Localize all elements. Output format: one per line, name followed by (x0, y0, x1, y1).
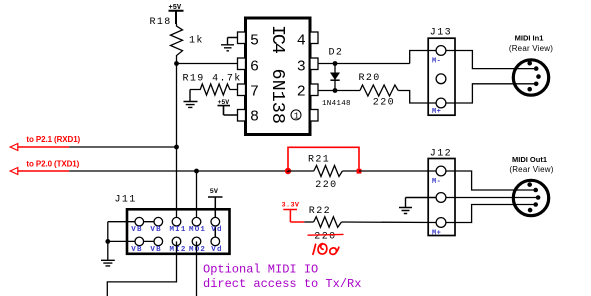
wire: J12 top pin to MIDI Out DIN (446, 171, 536, 190)
node: RXD1 junction (174, 145, 179, 150)
svg-text:R18: R18 (150, 17, 172, 28)
wire: IC pin2 to R20 (318, 90, 360, 92)
power 3.3V (red, R22 feed) (282, 201, 305, 222)
svg-text:to P2.1 (RXD1): to P2.1 (RXD1) (26, 135, 80, 144)
wire: R20 to J13 M+ (398, 91, 436, 104)
node: VB rail junction (105, 239, 110, 244)
wire: to J12 M- (359, 170, 436, 172)
svg-text:5: 5 (250, 32, 259, 49)
svg-text:MIDI Out1: MIDI Out1 (512, 155, 547, 164)
wire: J13 bottom pin to MIDI In DIN pin (446, 84, 536, 103)
svg-text:Vd: Vd (211, 246, 222, 254)
wire: R22 to J12 M+ (342, 221, 437, 224)
svg-text:VB: VB (150, 226, 161, 234)
pin labels J11 bottom row: VB VB MI2 MO2 Vd (131, 246, 222, 254)
MIDI In1 DIN connector (rear view) (513, 60, 548, 95)
wire: junction to IC pin 6 (177, 63, 238, 65)
wire: MO1 vertical (TXD1 down to J11 pin MO1) (196, 171, 198, 222)
svg-text:R20: R20 (359, 73, 381, 84)
power +5V symbol (IC pin 8) (218, 99, 238, 115)
pin labels J11 top row: VB VB MI1 MO1 Vd (131, 226, 222, 234)
ground (J12 middle pin) (399, 198, 436, 214)
svg-text:6N138: 6N138 (267, 69, 288, 125)
svg-text:MI1: MI1 (169, 226, 186, 234)
IC4 pin 2 stub (310, 84, 318, 96)
svg-text:4: 4 (297, 32, 306, 49)
wire: to R22 (304, 221, 313, 223)
arrow: to P2.1 (10, 144, 18, 151)
svg-text:(Rear View): (Rear View) (509, 165, 553, 174)
svg-text:J11: J11 (115, 195, 137, 206)
svg-text:Vd: Vd (211, 226, 222, 234)
wire: TXD1 red segment from arrow (17, 170, 69, 172)
wire: R21 to red marker (342, 170, 359, 172)
wire: TXD1 to R21 (288, 170, 314, 172)
wire: RXD1 black segment (69, 146, 176, 148)
diode D2 (330, 64, 340, 91)
svg-text:220: 220 (373, 97, 395, 108)
wire: MI2 exit (down, left, down off page) (107, 241, 176, 296)
connector J11 header 2x5 (127, 209, 230, 254)
wire: IC pin3 to J13 M- (318, 63, 410, 65)
svg-text:to P2.0 (TXD1): to P2.0 (TXD1) (26, 159, 79, 168)
svg-text:M+: M+ (432, 108, 441, 116)
resistor R22 (314, 217, 342, 228)
svg-text:6: 6 (250, 58, 259, 75)
wire: red bypass around R21 (288, 147, 359, 171)
IC4 pin 4 stub (310, 32, 318, 44)
connector J13 (428, 38, 455, 115)
red strike line (308, 233, 344, 236)
svg-text:MI2: MI2 (169, 246, 186, 254)
wire: RXD1 red segment from arrow (17, 146, 69, 148)
svg-text:MO2: MO2 (189, 246, 206, 254)
IC4 pin 3 stub (310, 58, 318, 70)
arrow: to P2.0 (10, 168, 18, 175)
node: R21/J12 red square marker (357, 169, 362, 174)
svg-text:J13: J13 (430, 27, 452, 38)
connector J12 (428, 159, 455, 236)
node: TXD1 / MO1 junction (194, 169, 199, 174)
svg-text:(Rear View): (Rear View) (509, 44, 553, 53)
wire: VB pins bottom row to left rail (108, 240, 159, 242)
svg-text:R22: R22 (309, 206, 331, 217)
power 5V symbol (J11 Vd) (208, 188, 223, 242)
wire: left rail vertical to ground (107, 222, 109, 261)
pin 1 circled marker (291, 110, 301, 122)
J11 pin circles top row (135, 217, 220, 226)
svg-text:direct access to Tx/Rx: direct access to Tx/Rx (203, 277, 361, 291)
node: TXD1/R21 red junction (285, 168, 291, 174)
svg-text:R21: R21 (308, 154, 330, 165)
wire: J12 bottom pin to MIDI Out DIN (446, 205, 536, 223)
IC4 pin 5 stub (238, 32, 246, 44)
svg-text:M-: M- (432, 178, 441, 186)
svg-text:R19 4.7k: R19 4.7k (183, 73, 242, 85)
IC4 pin 8 stub (238, 110, 246, 122)
op-to-coupler IC4 body (246, 18, 311, 135)
svg-text:J12: J12 (430, 149, 452, 160)
svg-text:VB: VB (131, 246, 142, 254)
svg-text:VB: VB (150, 246, 161, 254)
wire: MO2 exit (down off page) (196, 241, 198, 296)
ground (IC pin 5) (221, 38, 238, 51)
svg-text:3.3V: 3.3V (282, 201, 300, 209)
svg-text:3: 3 (297, 58, 306, 75)
svg-text:M-: M- (432, 58, 441, 66)
svg-text:5V: 5V (210, 188, 219, 196)
IC4 pin 1 stub (310, 110, 318, 122)
resistor R21 (314, 166, 343, 177)
wire: J12 middle pin to MIDI Out DIN center (446, 197, 538, 199)
svg-text:7: 7 (250, 84, 259, 101)
svg-text:VB: VB (131, 226, 142, 234)
MIDI Out1 DIN connector (rear view) (513, 180, 548, 215)
svg-text:220: 220 (315, 180, 337, 191)
resistor R20 (360, 85, 398, 96)
svg-text:1N4148: 1N4148 (322, 100, 351, 108)
resistor R18 (171, 24, 183, 64)
svg-text:1k: 1k (189, 35, 204, 47)
resistor R19 (190, 84, 238, 95)
IC4 pin 7 stub (238, 84, 246, 96)
svg-text:D2: D2 (329, 48, 344, 59)
wire: vertical net RXD1/MI1 (junction down to J11 pin MI1) (176, 64, 178, 222)
handwritten 100 (red) (313, 244, 339, 255)
ground (J11 VB rail) (101, 260, 115, 266)
svg-text:2: 2 (297, 84, 306, 101)
J11 pin circles bottom row (135, 237, 220, 246)
node: D2 anode junction (333, 61, 338, 66)
ground (R19 left) (184, 90, 198, 108)
IC4 pin 6 stub (238, 58, 246, 70)
power +5V symbol (top, above R18) (169, 4, 184, 24)
svg-text:M+: M+ (432, 230, 441, 238)
svg-text:220: 220 (314, 232, 336, 243)
node: D2 cathode junction (333, 88, 338, 93)
svg-text:8: 8 (250, 108, 259, 125)
wire: J13 top pin to MIDI In DIN pin (446, 51, 536, 69)
wire: corner up into J13 top pin (410, 51, 436, 64)
node: R18 / IC pin6 junction (174, 61, 179, 66)
wire: TXD1 black segment (69, 170, 288, 172)
svg-text:1: 1 (294, 112, 299, 122)
wire: VB pins top row to left rail (108, 221, 159, 223)
svg-text:Optional MIDI IO: Optional MIDI IO (203, 262, 318, 276)
svg-text:MIDI In1: MIDI In1 (515, 34, 544, 43)
svg-text:IC4: IC4 (267, 25, 288, 54)
svg-text:MO1: MO1 (189, 226, 206, 234)
